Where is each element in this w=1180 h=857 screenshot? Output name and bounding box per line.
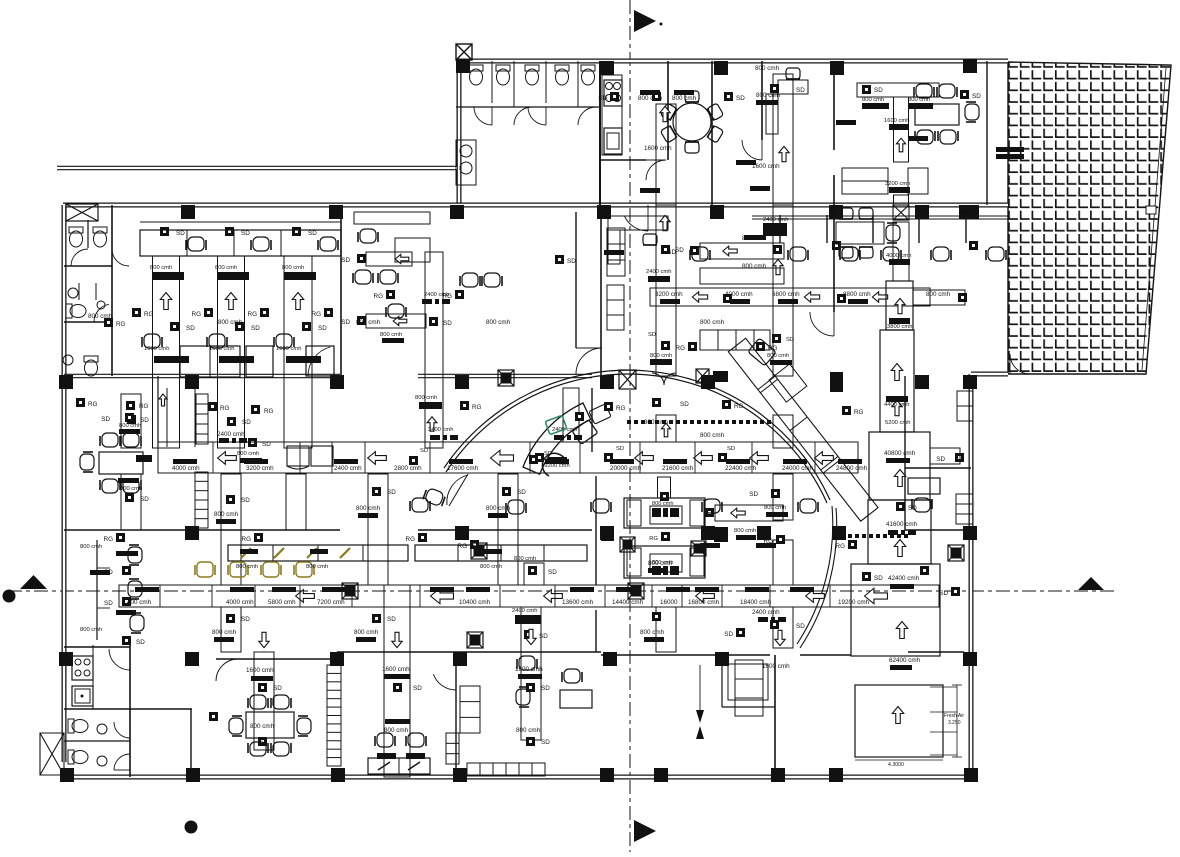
RG marker 776,535 [776, 535, 785, 544]
svg-text:10400 cmh: 10400 cmh [459, 599, 491, 606]
svg-text:5800 cmh: 5800 cmh [268, 599, 296, 606]
column row-E x460 [453, 652, 467, 666]
duct A tick x838 [838, 459, 862, 464]
washroom bottom [84, 356, 98, 362]
arc right lower [800, 508, 837, 648]
svg-text:24800 cmh: 24800 cmh [836, 465, 868, 472]
duct B tick x466 [466, 587, 490, 592]
room1 sd [209, 712, 218, 721]
ahu right stub [930, 448, 960, 464]
svg-text:4000 cmh: 4000 cmh [172, 465, 200, 472]
duct x166 top tick [152, 272, 184, 280]
svg-text:RG: RG [104, 536, 114, 543]
RG marker 418,533 [418, 533, 427, 542]
duct A sep sds [604, 453, 613, 462]
svg-text:SD: SD [443, 320, 452, 327]
svg-text:400 cmh: 400 cmh [127, 599, 152, 606]
svg-text:800 cmh: 800 cmh [480, 564, 502, 570]
svg-text:SD: SD [796, 623, 805, 630]
kitchen stove [604, 80, 622, 106]
column row-E x192 [185, 652, 199, 666]
room2 rg [386, 290, 395, 299]
branch TL1 [700, 243, 784, 259]
olive chair 0 [195, 562, 215, 577]
column top row x717 [710, 205, 724, 219]
fresh dim ext lines [930, 686, 957, 688]
duct A sofa [287, 446, 309, 466]
duct B arrow x442 [431, 588, 454, 604]
svg-text:SD: SD [176, 230, 185, 237]
wall y530 mid [418, 529, 592, 531]
RG box x260 [260, 308, 269, 317]
duct x231 tick2 [219, 356, 254, 363]
washroom toilets top [69, 227, 83, 233]
svg-text:800 cmh: 800 cmh [212, 629, 237, 636]
svg-text:RG: RG [374, 293, 384, 300]
column row-D x462 [455, 526, 469, 540]
svg-text:2400 cmh: 2400 cmh [752, 609, 780, 616]
svg-text:SD: SD [544, 451, 552, 457]
svg-text:RG: RG [242, 536, 252, 543]
V2c low [372, 614, 381, 623]
column mid row x708 [701, 375, 715, 389]
ws desk 2 [246, 346, 273, 377]
svg-text:RG: RG [854, 409, 864, 416]
mid vertical wall x592 [591, 388, 593, 452]
kitchen counter [602, 75, 622, 155]
upper-left wall [457, 61, 462, 205]
svg-text:3200 cmh: 3200 cmh [655, 291, 683, 298]
riser V7 [893, 222, 909, 281]
olive chair 1 [228, 562, 248, 577]
svg-text:SD: SD [680, 401, 689, 408]
bottom desk right [560, 690, 592, 708]
meetingroom ladder [327, 665, 341, 766]
svg-text:2400 cmh: 2400 cmh [763, 217, 788, 223]
svg-text:SD: SD [874, 87, 883, 94]
svg-text:SD: SD [140, 496, 149, 503]
x264 arrow [259, 632, 269, 647]
v0 tick [118, 478, 139, 483]
ahu box 40800 [869, 432, 930, 500]
duct B arrow x305 [296, 590, 315, 603]
kitchen right wall [667, 61, 669, 160]
column mid row x192 [185, 375, 199, 389]
SD marker 736,628 [736, 628, 745, 637]
svg-text:800 cmh: 800 cmh [282, 265, 304, 271]
dark block arc [830, 372, 843, 392]
upper top row columns [600, 61, 614, 75]
dark xbox 628,583 [628, 583, 644, 599]
bottom-left corner stair [40, 733, 64, 775]
reception person arc [542, 453, 566, 476]
svg-text:8800 cmh: 8800 cmh [843, 291, 871, 298]
svg-text:RG: RG [472, 404, 482, 411]
svg-text:SD: SD [140, 417, 149, 424]
stair ladder up [196, 394, 208, 444]
svg-text:SD: SD [616, 446, 624, 452]
svg-text:RG: RG [616, 405, 626, 412]
ur duct x901 [894, 97, 909, 162]
corner xbox top-left [66, 204, 98, 221]
V4 ticks [640, 90, 660, 95]
wc bl partition [64, 740, 130, 742]
V0 labels [127, 415, 136, 424]
right wall sd low [951, 587, 960, 596]
svg-text:800 cmh: 800 cmh [218, 319, 243, 326]
duct V2c [368, 474, 388, 585]
svg-text:RG: RG [768, 345, 778, 352]
duct x298 top sd [292, 227, 301, 236]
RG marker 76,398 [76, 398, 85, 407]
duct x264 bottom [254, 652, 274, 750]
duct x231 top sd [225, 227, 234, 236]
ahu box fresh [855, 685, 943, 757]
corridor sd boxes [832, 241, 841, 250]
duct B tick x230 [230, 587, 254, 592]
room2 door [308, 347, 330, 376]
svg-text:800 cmh: 800 cmh [734, 528, 756, 534]
svg-text:SD: SD [724, 631, 733, 638]
svg-text:RG: RG [836, 543, 846, 550]
left marker triangle [20, 575, 47, 589]
column row-E x337 [330, 652, 344, 666]
svg-text:16000: 16000 [660, 599, 678, 606]
duct x231 top tick [217, 272, 249, 280]
duct A arrow x227 [218, 452, 237, 465]
column mid row x607 [600, 375, 614, 389]
xbox mid [619, 370, 636, 389]
tick 90,570 [90, 570, 110, 575]
svg-text:800 cmh: 800 cmh [80, 544, 102, 550]
svg-text:800 cmh: 800 cmh [380, 332, 402, 338]
svg-text:4400 cmh: 4400 cmh [884, 402, 909, 408]
svg-text:800 cmh: 800 cmh [236, 564, 258, 570]
svg-text:24000 cmh: 24000 cmh [782, 465, 814, 472]
corridor chairs row [690, 247, 710, 261]
svg-text:800 cmh: 800 cmh [214, 511, 239, 518]
room wall x456 [455, 666, 457, 777]
V5 ticks [756, 100, 778, 105]
tick 700,543 [700, 543, 720, 548]
duct A tick x663 [663, 459, 687, 464]
column bottom x67 [60, 768, 74, 782]
column bottom x193 [186, 768, 200, 782]
arc door below duct [447, 475, 468, 505]
main duct A channel [158, 442, 858, 473]
column bottom x836 [829, 768, 843, 782]
svg-text:13600 cmh: 13600 cmh [562, 599, 594, 606]
room wall x607 [606, 652, 608, 660]
hall wall x834 [833, 205, 835, 312]
x397 desks [375, 733, 395, 747]
svg-text:800 cmh: 800 cmh [80, 627, 102, 633]
corridor window wall [752, 215, 1008, 217]
svg-text:SD: SD [541, 739, 550, 746]
svg-text:4.3000: 4.3000 [888, 762, 904, 768]
pantry door [109, 649, 130, 670]
column row-E x722 [715, 652, 729, 666]
SD marker 555,255 [555, 255, 564, 264]
wall y652 row [64, 646, 130, 648]
svg-text:800 cmh: 800 cmh [356, 319, 381, 326]
x397 long desk [368, 758, 430, 774]
tick 750,186 [750, 186, 770, 191]
svg-text:SD: SD [101, 416, 110, 423]
duct B tick x666 [666, 587, 690, 592]
main duct B channel [119, 585, 939, 607]
duct x298 mid sd [302, 322, 311, 331]
duct row C [650, 288, 930, 306]
svg-text:19200 cmh: 19200 cmh [838, 599, 870, 606]
room1 chairs [248, 695, 268, 709]
svg-text:SD: SD [136, 639, 145, 646]
duct B sd riser [524, 563, 544, 585]
ws desk 1 [180, 346, 240, 377]
V1b mid sd [226, 495, 235, 504]
duct A arrow x759 [750, 452, 769, 465]
svg-text:SD: SD [874, 575, 883, 582]
right wall shelf2 [956, 494, 973, 524]
duct x231 mid sd [235, 322, 244, 331]
svg-text:800 cmh: 800 cmh [700, 319, 725, 326]
ws desk 3 [306, 346, 334, 376]
svg-text:RG: RG [676, 345, 686, 352]
svg-text:3.250: 3.250 [948, 720, 961, 726]
svg-text:800 cmh: 800 cmh [306, 564, 328, 570]
washroom partition1 [64, 265, 112, 267]
RG marker 104,318 [104, 318, 113, 327]
svg-text:RG: RG [734, 403, 744, 410]
pantry stove [72, 656, 93, 680]
svg-text:1600 cmh: 1600 cmh [276, 346, 301, 352]
RG marker 208,402 [208, 402, 217, 411]
svg-text:800 cmh: 800 cmh [640, 629, 665, 636]
wall x834 [833, 61, 835, 150]
svg-text:RG: RG [88, 401, 98, 408]
svg-text:RG: RG [458, 543, 468, 550]
duct B tick x616 [616, 587, 640, 592]
svg-text:SD: SD [413, 685, 422, 692]
duct x231 chair mid [207, 334, 227, 348]
x397 arrow [392, 632, 402, 647]
duct B tick x135 [135, 587, 159, 592]
svg-text:SD: SD [936, 456, 945, 463]
column bottom x778 [771, 768, 785, 782]
bottom door [433, 674, 456, 690]
RG box x132 [132, 308, 141, 317]
wall x762 [761, 61, 763, 140]
duct A tick x545 [545, 459, 569, 464]
column top row x836 [829, 205, 843, 219]
svg-text:SD: SD [517, 489, 526, 496]
duct x397 bottom [384, 585, 410, 777]
svg-text:800 cmh: 800 cmh [119, 423, 141, 429]
wall hatch-bottom link [971, 372, 1008, 377]
duct x298 chair mid [274, 334, 294, 348]
svg-text:62400 cmh: 62400 cmh [889, 657, 921, 664]
v0 chairs [100, 433, 120, 447]
svg-text:SD: SD [736, 95, 745, 102]
RG marker 756,342 [756, 342, 765, 351]
column row-E x610 [603, 652, 617, 666]
duct x298 arrowup [292, 293, 304, 310]
svg-text:SD: SD [251, 325, 260, 332]
tick 604,250 [604, 250, 624, 255]
room wall x775 [774, 655, 776, 777]
left marker dot [3, 590, 16, 603]
ur branch duct [857, 83, 939, 97]
vertical duct x298 [284, 256, 312, 448]
svg-text:3800 cmh: 3800 cmh [887, 324, 912, 330]
top marker triangle [634, 10, 656, 32]
svg-text:800 cmh: 800 cmh [88, 313, 113, 320]
wall y530 left [64, 529, 340, 531]
V2c sd [372, 487, 381, 496]
svg-text:3200 cmh: 3200 cmh [246, 465, 274, 472]
wall y376 left [64, 374, 340, 379]
svg-text:SD: SD [648, 332, 656, 338]
upper room sofa [842, 168, 888, 194]
duct A arrow x502 [491, 450, 514, 466]
duct A tick x783 [783, 459, 807, 464]
room2 wall x341 [340, 205, 342, 376]
bottom wall [63, 775, 973, 780]
ur table [915, 104, 959, 125]
dining chairs [685, 91, 699, 102]
svg-text:RG: RG [139, 403, 149, 410]
V4 arrows [660, 106, 670, 121]
column row-D x764 [757, 526, 771, 540]
terrace inner edge [1142, 68, 1166, 370]
svg-text:SD: SD [186, 325, 195, 332]
pantry sink [72, 686, 93, 706]
duct B xbox [342, 583, 358, 599]
svg-text:SD: SD [548, 569, 557, 576]
row C arrow 880 [872, 292, 887, 302]
duct B xbox2 [467, 632, 483, 648]
row C arrow 700 [692, 292, 707, 302]
svg-text:RG: RG [192, 311, 202, 318]
duct B arrow x815 [806, 590, 825, 603]
column top row x188 [181, 205, 195, 219]
corridor chairs [410, 498, 430, 512]
SD marker 862,572 [862, 572, 871, 581]
column top row x604 [597, 205, 611, 219]
svg-text:3200 cmh: 3200 cmh [885, 181, 910, 187]
svg-text:SD: SD [241, 230, 250, 237]
left room right wall [575, 212, 577, 348]
svg-text:800 cmh: 800 cmh [926, 291, 951, 298]
tick 908,136 [908, 136, 928, 141]
SD marker 610,92 [610, 92, 619, 101]
svg-text:800 cmh: 800 cmh [486, 319, 511, 326]
tick 640,188 [640, 188, 660, 193]
svg-text:6800 cmh: 6800 cmh [772, 291, 800, 298]
column mid row x462 [455, 375, 469, 389]
V4 SDs [652, 92, 661, 101]
vertical duct x231 [218, 256, 245, 448]
entry double door [652, 373, 676, 385]
column top row x336 [329, 205, 343, 219]
svg-text:RG: RG [264, 408, 274, 415]
row C tick 778 [778, 299, 798, 304]
right wall sd mid [955, 453, 964, 462]
xbox upper corner [456, 44, 472, 60]
duct B tick x430 [430, 587, 454, 592]
svg-text:40800 cmh: 40800 cmh [884, 450, 916, 457]
terrace notch [1146, 206, 1156, 214]
ur chairs [914, 84, 934, 98]
olive slash 3 [340, 548, 350, 558]
green chair [545, 415, 567, 434]
svg-text:2400 cmh: 2400 cmh [334, 465, 362, 472]
xbox mid2 [696, 369, 709, 383]
svg-text:2800 cmh: 2800 cmh [394, 465, 422, 472]
RG marker 460,401 [460, 401, 469, 410]
svg-text:800 cmh: 800 cmh [756, 92, 781, 99]
wc bl toilet1 [68, 719, 74, 733]
room2 desk top [354, 212, 430, 224]
vertical duct V4 [656, 104, 676, 205]
sofa bottom right room [735, 660, 763, 716]
svg-text:SD: SD [241, 616, 250, 623]
row C right stub [913, 290, 965, 305]
duct A arrow x824 [815, 452, 834, 465]
duct leg x571 [563, 388, 579, 442]
svg-text:RG: RG [312, 311, 322, 318]
svg-text:SD: SD [567, 258, 576, 265]
duct V3c [498, 474, 518, 585]
row C tick 730 [730, 299, 750, 304]
bottom rooms walls [129, 645, 131, 777]
svg-text:20000 cmh: 20000 cmh [610, 465, 642, 472]
svg-text:1600 cmh: 1600 cmh [762, 663, 790, 670]
wc bl toilet2 [68, 750, 74, 764]
wall y530 right [905, 529, 971, 531]
svg-text:5200 cmh: 5200 cmh [885, 420, 910, 426]
svg-text:SD: SD [541, 685, 550, 692]
column top row x457 [450, 205, 464, 219]
main horizontal wall [63, 203, 1008, 208]
svg-text:SD: SD [667, 249, 676, 256]
left room door [576, 348, 602, 374]
svg-text:4000 cmh: 4000 cmh [226, 599, 254, 606]
RG marker 470,540 [470, 540, 479, 549]
column bottom x971 [964, 768, 978, 782]
svg-text:1600 cmh: 1600 cmh [752, 163, 780, 170]
vertical centerline [629, 0, 631, 852]
duct B tick x272 [272, 587, 296, 592]
tick 836,120 [836, 120, 856, 125]
svg-text:SD: SD [727, 446, 735, 452]
section arrows [699, 665, 701, 710]
svg-text:SD: SD [308, 230, 317, 237]
right mid desk [908, 478, 940, 494]
svg-text:1600 cmh: 1600 cmh [884, 118, 909, 124]
reception sd [529, 455, 538, 464]
svg-text:7200 cmh: 7200 cmh [317, 599, 345, 606]
svg-text:800 cmh: 800 cmh [700, 432, 725, 439]
stair arrow [159, 394, 167, 406]
svg-text:800 cmh: 800 cmh [516, 727, 541, 734]
upper terrace line [57, 166, 457, 171]
duct A tick x173 [173, 459, 197, 464]
duct B arrow x553 [544, 590, 563, 603]
dark xbox 498,370 [498, 370, 514, 386]
column mid row x66 [59, 375, 73, 389]
wc block bottom wall [456, 106, 600, 108]
